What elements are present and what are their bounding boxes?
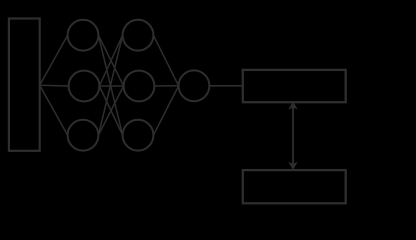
node h3: [68, 120, 99, 151]
input layer box: [9, 19, 40, 151]
double arrow shaft: [292, 106, 294, 165]
arrowhead down: [290, 163, 297, 169]
wire h3 to g1: [98, 35, 122, 135]
output node: [179, 70, 210, 101]
wire g1 to output node: [153, 35, 178, 86]
wire h1 to g2: [98, 35, 123, 86]
node h2: [69, 71, 100, 102]
wire input to node h1: [40, 35, 68, 85]
wire h1 to g3: [98, 35, 122, 135]
wire output node to box: [209, 85, 242, 87]
wire h2 to g2: [99, 85, 123, 87]
node g2: [124, 71, 155, 102]
wire g2 to output node: [154, 85, 178, 87]
wire h2 to g1: [99, 35, 122, 86]
node g3: [123, 120, 154, 151]
node h1: [68, 20, 99, 51]
node g1: [123, 20, 154, 51]
wire input to node h3: [40, 85, 68, 135]
wire input to node h2: [40, 84, 69, 87]
wire g3 to output node: [153, 86, 178, 135]
arrowhead up: [290, 103, 297, 109]
bottom box: [243, 170, 346, 203]
wire h2 to g3: [99, 86, 122, 135]
top box: [243, 70, 346, 102]
wire h3 to g2: [98, 86, 123, 135]
